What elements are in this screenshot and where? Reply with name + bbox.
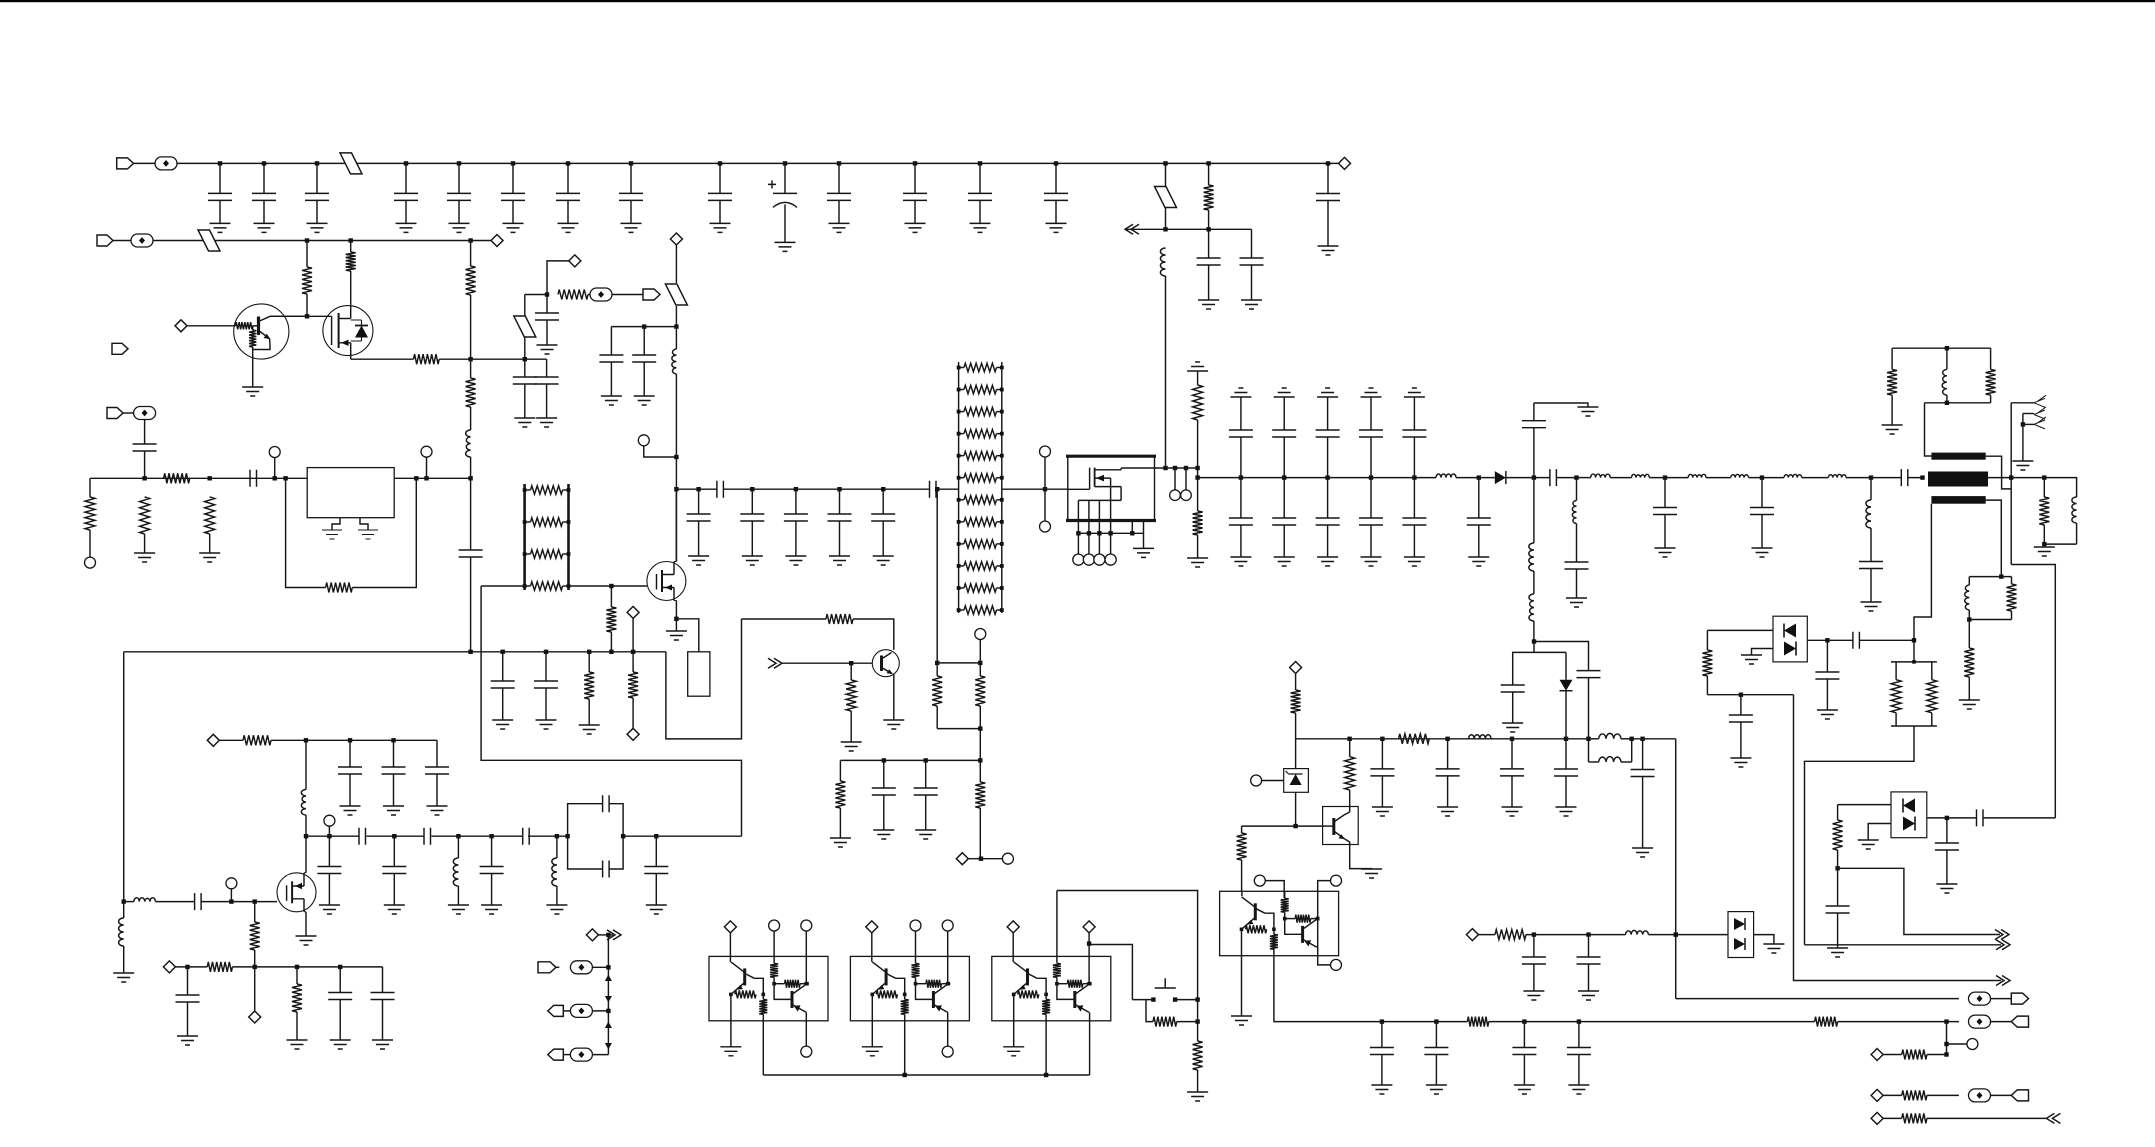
capacitor CF2 — [339, 967, 341, 993]
capacitor C14 — [1663, 475, 1667, 479]
resistor R24 — [1197, 1000, 1199, 1041]
series cap C25 — [1853, 632, 1860, 649]
transformer T1 — [1931, 453, 1985, 460]
wire source Q2 — [350, 356, 352, 359]
U7 right — [1807, 639, 1853, 641]
main line A — [90, 477, 307, 479]
resistor R22 — [1345, 757, 1355, 790]
inductors L8 L9 — [1688, 474, 1706, 477]
diamond below — [254, 967, 256, 1011]
inductor L4 — [1436, 474, 1456, 478]
wire — [270, 315, 332, 317]
R26 R27 pair — [936, 489, 938, 663]
resistor ladder RN2 — [958, 362, 960, 613]
capacitor C5b — [643, 327, 645, 355]
net arrow A1 — [1125, 224, 1139, 234]
RL load R18 L13 — [2044, 478, 2076, 497]
capacitor C1i — [718, 161, 722, 165]
connector P2 — [97, 235, 113, 246]
capacitor C9b — [545, 652, 547, 681]
row3 y1095 — [1871, 1089, 1883, 1101]
bus wire — [763, 1074, 1089, 1076]
node junctions right — [1163, 161, 1167, 165]
title block bar — [0, 0, 2155, 2]
line E y740 — [207, 734, 219, 746]
capacitor C4a — [524, 359, 526, 377]
row2 y1021.5 — [1382, 1021, 1468, 1023]
resistor R7 — [545, 292, 549, 296]
inductor L1 — [1160, 248, 1165, 276]
resistor R29 — [979, 760, 981, 782]
capacitor C1h — [629, 161, 633, 165]
capacitor CE — [393, 740, 395, 767]
MOSFET Q2 — [323, 306, 373, 356]
wire drain — [675, 457, 677, 562]
capacitor C23 — [1740, 695, 1742, 715]
wire from gate node — [481, 586, 741, 836]
wire x=123 — [123, 652, 125, 902]
IC U2 — [1068, 456, 1155, 520]
emitter gnd — [893, 674, 895, 721]
resistor R28 — [839, 760, 841, 781]
capacitor C2a — [1208, 229, 1210, 258]
R33 R34 pair — [1913, 640, 1915, 662]
resistor R10 — [164, 473, 190, 483]
feedback loop R12 — [286, 478, 326, 587]
inductor L21 — [1626, 930, 1649, 934]
ferrite bead FB6 — [588, 294, 590, 296]
resistor R13 — [588, 652, 590, 672]
capacitor C1j — [837, 161, 841, 165]
resistor R32 — [1706, 630, 1708, 650]
capacitor CG — [1435, 1022, 1437, 1048]
ferrite bead FB5 — [198, 230, 220, 251]
capacitor C21a — [882, 758, 886, 762]
wire y738 — [1296, 738, 1589, 740]
resistor R3 — [346, 252, 356, 271]
long wire down — [1675, 739, 1677, 999]
capacitor CD1 — [328, 836, 330, 866]
cap pair column — [1412, 475, 1416, 479]
series cap C28 — [1977, 809, 1984, 826]
main line C — [1198, 477, 1436, 479]
capacitor C1d — [404, 161, 408, 165]
wire y966 — [163, 961, 175, 973]
row diamond R36 — [1466, 929, 1478, 941]
diode pack D4 — [1728, 912, 1754, 958]
row4 y1118 — [1871, 1112, 1883, 1124]
capacitor CE — [436, 740, 438, 767]
capacitor C5a — [610, 327, 612, 355]
gate line — [134, 898, 156, 902]
box U7 diodes — [1773, 616, 1807, 662]
series cap C17 — [1901, 469, 1908, 486]
T1 right connections — [1986, 456, 2012, 489]
wire y326 — [611, 326, 676, 328]
U8 left gnd — [1868, 824, 1891, 841]
series cap C8 — [470, 478, 472, 550]
arrow in — [768, 658, 782, 668]
rail2 wire — [153, 240, 497, 242]
resistor R14 — [610, 586, 612, 607]
capacitor C10 — [1477, 475, 1481, 479]
resistor R37 — [1968, 620, 1970, 649]
capacitor C1b — [262, 161, 266, 165]
ferrite bead FB1 — [134, 162, 156, 164]
capacitor C1a — [218, 161, 222, 165]
branch right cap C19 — [1534, 642, 1589, 671]
capacitor C27 — [1946, 818, 1948, 843]
ferrite bead FB2 — [340, 153, 362, 174]
optocoupler U4 — [709, 956, 828, 1020]
capacitor CE — [349, 740, 351, 767]
capacitor C24 — [1826, 640, 1828, 672]
resistor R9 — [140, 497, 150, 534]
cap pair column — [1369, 475, 1373, 479]
gate wire — [481, 585, 524, 587]
capacitor CB — [794, 487, 798, 491]
terminal — [638, 435, 649, 446]
gnd — [675, 619, 677, 631]
capacitor C20b — [1447, 739, 1449, 769]
zener D3 — [1284, 769, 1309, 793]
resistor R11 — [208, 476, 212, 480]
diode D2 — [1534, 652, 1566, 679]
capacitor C15 — [1760, 475, 1764, 479]
capacitor CB — [696, 487, 700, 491]
inductor L18 — [301, 790, 306, 816]
transistor Q1 — [234, 304, 289, 359]
P4 — [538, 962, 556, 973]
wire from box3 top — [1057, 891, 1198, 1000]
diamond/resistor R15 — [627, 606, 639, 618]
connector P3 — [112, 343, 128, 354]
capacitor CD4 — [655, 836, 657, 866]
resistor R25 — [850, 663, 852, 680]
MOSFET Q6 — [277, 873, 316, 912]
capacitor CB — [750, 487, 754, 491]
capacitor C1e — [457, 161, 461, 165]
U3 emitter gnd — [1241, 929, 1243, 1016]
capacitor C31 — [1565, 739, 1567, 769]
P6 — [548, 1049, 564, 1060]
series cap C12 — [1550, 469, 1557, 486]
cap pair column — [1282, 475, 1286, 479]
resistor R21 — [1241, 826, 1243, 833]
inductors L6 L7 — [1577, 477, 1591, 479]
diamond + resistor R20 — [1290, 662, 1302, 674]
power rail VCC1 — [177, 162, 1345, 164]
inductor L20 — [552, 858, 557, 886]
inductor L17 — [119, 918, 124, 946]
terminal — [1251, 775, 1262, 786]
capacitor CD2 — [393, 836, 395, 866]
capacitor C30 — [1642, 739, 1644, 770]
capacitor C1g — [566, 161, 570, 165]
optocoupler U5 — [850, 956, 969, 1020]
capacitor CG — [1578, 1022, 1580, 1048]
inductor L2 — [466, 430, 471, 457]
capacitor C4b — [546, 359, 548, 377]
long wire y651 — [124, 651, 666, 653]
diamond node — [670, 233, 682, 245]
L12+C16 column — [1869, 475, 1873, 479]
capacitor C2c — [1327, 163, 1329, 193]
top RLR block — [1892, 347, 1991, 349]
U7 wires — [1707, 629, 1773, 631]
net arrow row B — [1805, 944, 2002, 946]
collector wire — [742, 618, 827, 620]
resistor R19 — [1399, 734, 1430, 744]
ferrite bead FB7 — [525, 294, 547, 296]
diode D1 — [1495, 471, 1506, 484]
cap pair column — [1239, 475, 1243, 479]
capacitor C9a — [502, 652, 504, 681]
optocoupler U3 — [1220, 891, 1339, 955]
terminal — [269, 447, 280, 458]
capacitor C1k — [913, 161, 917, 165]
cap C11 to gnd — [1533, 428, 1535, 478]
U1 gnd pins — [332, 518, 368, 530]
capacitor C20c — [1511, 739, 1513, 769]
resistor R2 — [306, 241, 308, 268]
transistor Q4 box — [1323, 807, 1359, 845]
terminal — [324, 815, 335, 826]
capacitor CF1 — [187, 967, 189, 995]
switch SW1 — [1151, 997, 1155, 1001]
resistor R1 — [1208, 163, 1210, 185]
resistor R17 — [1197, 468, 1199, 511]
capacitor C2b — [1251, 229, 1253, 258]
U3 out to bus — [1274, 940, 1382, 1022]
resistor R6 — [466, 378, 476, 407]
wire y826 — [1242, 825, 1323, 827]
capacitor C26 — [1837, 868, 1839, 906]
resistor R23 — [1146, 1000, 1153, 1022]
ferrite bead FB8 — [665, 284, 687, 305]
capacitor CG — [1381, 1022, 1383, 1048]
resistor R31 — [296, 967, 298, 984]
diamond node — [569, 255, 581, 267]
drain line — [1155, 467, 1198, 469]
capacitor C29a — [1533, 935, 1535, 957]
series cap C7 — [250, 470, 257, 487]
U3 terminals — [1254, 875, 1265, 886]
line D y836 — [306, 835, 359, 837]
ferrite bead FB4 — [113, 240, 131, 242]
wire y760 — [840, 759, 980, 761]
capacitor C1m — [1054, 161, 1058, 165]
resistor R16 — [1187, 362, 1208, 371]
input cap C6 — [107, 408, 123, 419]
capacitor C3 — [546, 295, 548, 314]
MOSFET Q3 — [647, 562, 686, 601]
node X — [956, 853, 968, 865]
resistor R5 — [466, 266, 476, 295]
corner to 738.9 — [666, 619, 742, 739]
parallel cap pair C22 — [568, 804, 603, 837]
L14 L15 column — [1533, 478, 1535, 543]
capacitor C1f — [511, 161, 515, 165]
ferrite bead FB3 — [1165, 163, 1167, 187]
capacitor C1c — [315, 161, 319, 165]
resistor R4 — [414, 354, 440, 364]
wire to IC — [1002, 488, 1068, 490]
long vert + row C — [1794, 695, 2002, 981]
antenna E1 — [2011, 402, 2034, 404]
capacitor CD3 — [491, 836, 493, 866]
capacitor CG — [1523, 1022, 1525, 1048]
T1 bar3 right chain w/ L||R — [1986, 500, 2002, 576]
sub branch — [1946, 1022, 1948, 1055]
L5+C13 column — [1574, 475, 1578, 479]
P5 — [548, 1005, 564, 1016]
capacitor C20a — [1381, 739, 1383, 769]
row1 connector — [1676, 998, 1959, 1000]
capacitor C21b — [924, 758, 928, 762]
terminal — [421, 446, 432, 457]
parallel inductor pair L22 — [1589, 738, 1599, 740]
capacitor CB — [837, 487, 841, 491]
capacitor C29b — [1588, 935, 1590, 957]
polarized capacitor C1n — [783, 161, 787, 165]
main line B — [676, 488, 717, 490]
junction — [468, 476, 472, 480]
R35 — [1838, 804, 1891, 806]
wire y359 — [471, 358, 547, 360]
inductor L19 — [453, 858, 458, 886]
capacitor CF3 — [382, 967, 384, 993]
U7 left gnd — [1752, 649, 1774, 656]
inductor L16 — [1469, 735, 1491, 739]
U8 right out — [1927, 817, 1947, 819]
U2 pins — [1077, 500, 1079, 533]
main line to RL load — [1988, 477, 2044, 479]
optocoupler U6 — [992, 956, 1111, 1020]
thermistor RT1 — [676, 619, 698, 652]
box3 pins — [1056, 891, 1058, 957]
resistor R8 — [89, 478, 91, 497]
gate ladder RN1 — [523, 484, 526, 590]
connector P1 — [117, 158, 134, 169]
resistor R30 — [254, 902, 256, 922]
optocoupler U8 — [1891, 792, 1927, 838]
IC U1 box — [307, 468, 394, 518]
cap pair column — [1325, 475, 1329, 479]
transistor Q5 — [872, 650, 899, 677]
connector column — [586, 929, 598, 941]
capacitor CB — [881, 487, 885, 491]
inductor L3 — [675, 327, 677, 349]
inductors L10 L11 — [1784, 474, 1802, 477]
capacitor C1l — [978, 161, 982, 165]
T1 bottom connection — [1914, 504, 1931, 641]
branch left cap C18 — [1513, 642, 1534, 686]
